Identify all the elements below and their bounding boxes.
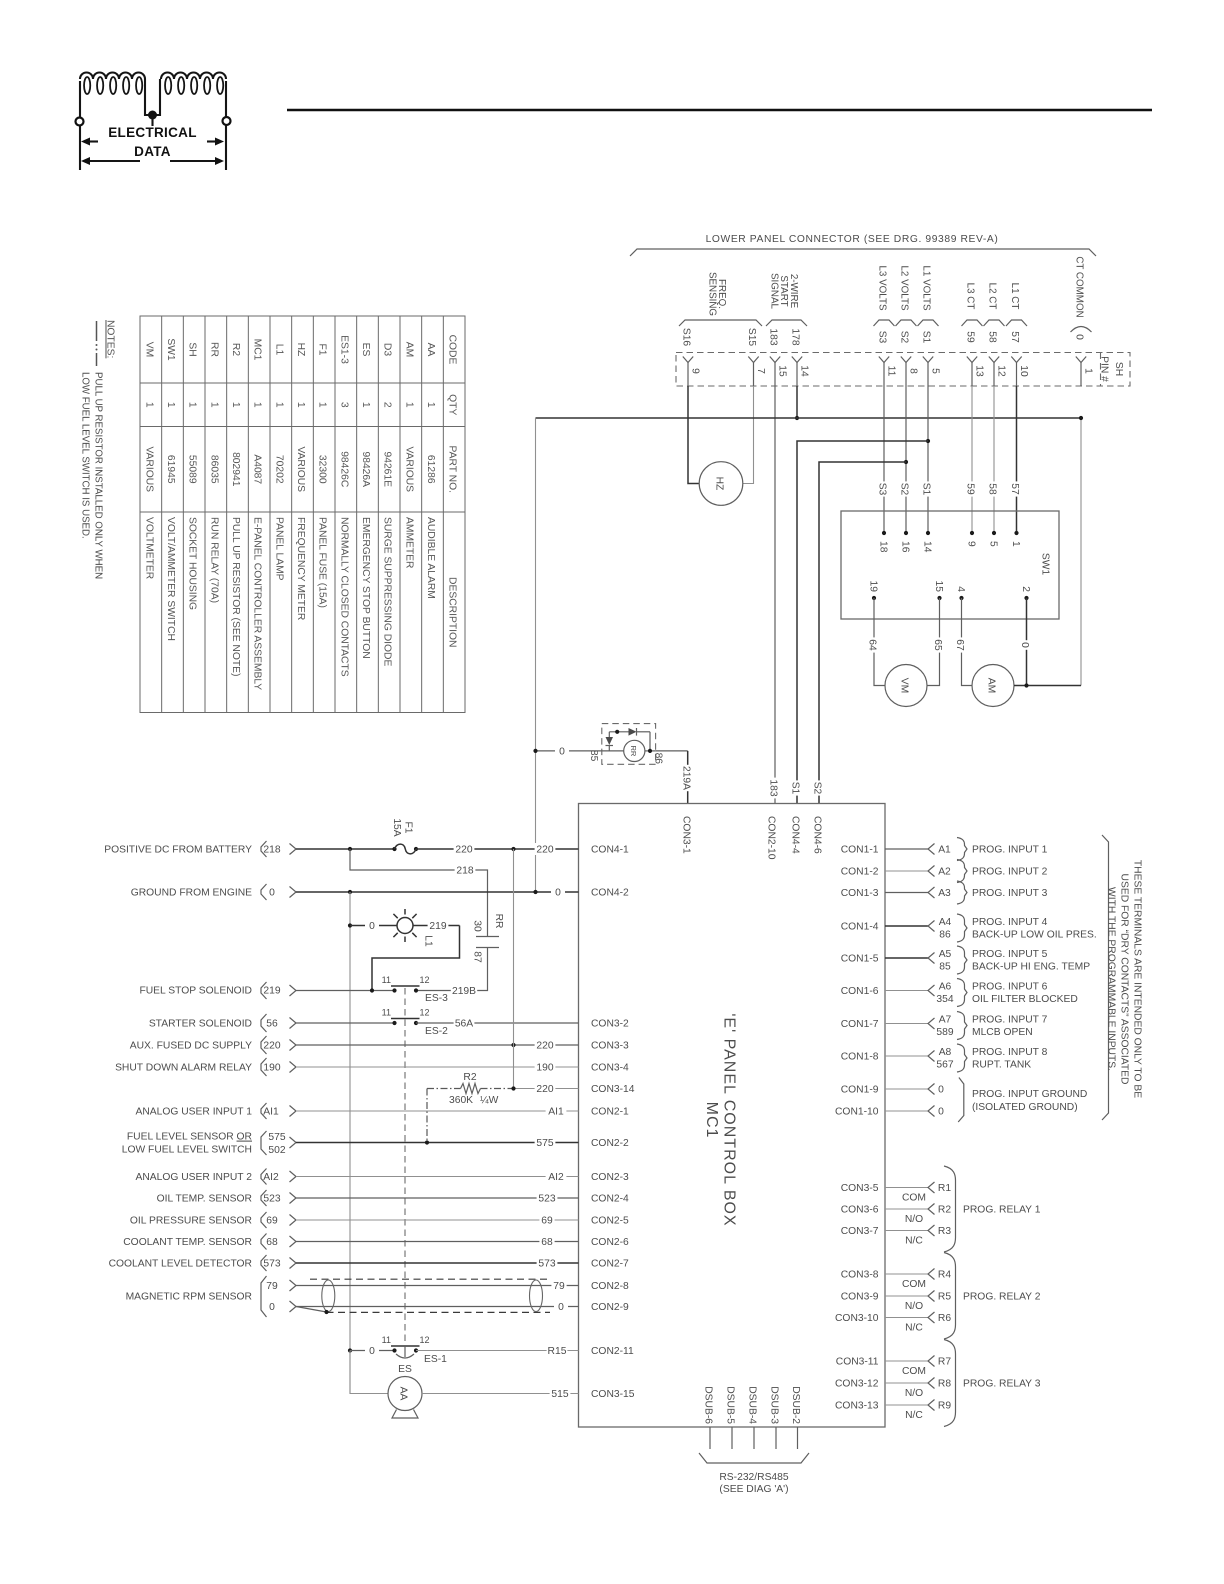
svg-text:L2 CT: L2 CT <box>987 283 998 310</box>
svg-text:A6: A6 <box>939 982 952 993</box>
svg-text:HZ: HZ <box>295 343 306 357</box>
voltmeter VM <box>885 665 927 707</box>
svg-text:CT COMMON: CT COMMON <box>1074 256 1085 317</box>
svg-text:1: 1 <box>1083 368 1094 374</box>
RR relay contact 30/87 <box>476 936 499 938</box>
svg-text:VM: VM <box>899 678 910 693</box>
svg-text:220: 220 <box>455 845 472 856</box>
svg-text:14: 14 <box>922 541 933 553</box>
svg-text:CON1-8: CON1-8 <box>841 1052 879 1063</box>
wire 219 lamp to fuel stop solenoid <box>413 925 460 927</box>
wire 56A to CON3-2 <box>416 1022 579 1024</box>
wire S15 to frequency meter <box>743 386 754 484</box>
diode D3 (horizontal, across RR coil) <box>629 728 637 736</box>
ground bus vertical <box>349 892 351 1394</box>
svg-text:R5: R5 <box>938 1292 951 1303</box>
svg-text:A4: A4 <box>939 917 952 928</box>
svg-text:PANEL LAMP: PANEL LAMP <box>273 517 284 581</box>
svg-text:11: 11 <box>886 366 897 377</box>
svg-text:DSUB-6: DSUB-6 <box>703 1386 714 1424</box>
svg-text:CON2-9: CON2-9 <box>591 1302 629 1313</box>
svg-text:PROG. RELAY 2: PROG. RELAY 2 <box>963 1292 1041 1303</box>
svg-text:CON2-5: CON2-5 <box>591 1216 629 1227</box>
svg-text:R9: R9 <box>938 1401 951 1412</box>
svg-text:CON1-1: CON1-1 <box>841 845 879 856</box>
pull-up resistor R2 360K quarter-watt (dash-dot optional wiring) <box>427 1072 514 1143</box>
svg-text:S1: S1 <box>921 331 932 344</box>
svg-text:CON3-15: CON3-15 <box>591 1389 635 1400</box>
svg-text:MC1: MC1 <box>703 1102 720 1139</box>
parts table (CODE/QTY/PART NO./DESCRIPTION, rotated) <box>140 316 465 713</box>
svg-text:3: 3 <box>338 402 349 408</box>
svg-text:11: 11 <box>382 1335 391 1345</box>
programmable relays CON3 wiring <box>885 1166 1041 1427</box>
svg-text:0: 0 <box>558 1302 564 1313</box>
connector dashed housing with pin forks and pin numbers <box>676 353 1130 387</box>
svg-text:CON3-6: CON3-6 <box>841 1205 879 1216</box>
svg-text:AI1: AI1 <box>548 1107 564 1118</box>
svg-text:573: 573 <box>538 1259 555 1270</box>
svg-text:802941: 802941 <box>230 452 241 487</box>
svg-text:183: 183 <box>768 328 779 345</box>
svg-text:PIN #: PIN # <box>1099 356 1110 382</box>
svg-text:59: 59 <box>965 483 976 495</box>
svg-text:57: 57 <box>1009 331 1020 343</box>
svg-text:ES: ES <box>398 1364 412 1375</box>
connector group labels (rotated) <box>706 256 1084 317</box>
ammeter AM <box>972 665 1014 707</box>
svg-text:ELECTRICAL: ELECTRICAL <box>108 125 197 140</box>
svg-text:360K: 360K <box>449 1095 473 1106</box>
svg-text:CON3-11: CON3-11 <box>836 1357 879 1368</box>
svg-text:A4087: A4087 <box>252 454 263 484</box>
wire ammeter to 0 bus <box>1014 685 1081 687</box>
svg-text:S2: S2 <box>899 483 910 496</box>
svg-text:CON1-4: CON1-4 <box>841 922 879 933</box>
svg-text:65: 65 <box>932 639 943 651</box>
svg-text:NOTES:: NOTES: <box>105 320 116 358</box>
connector overall bracket <box>630 249 1096 256</box>
svg-text:SHUT DOWN ALARM RELAY: SHUT DOWN ALARM RELAY <box>115 1063 252 1074</box>
svg-text:N/O: N/O <box>905 1388 923 1399</box>
svg-text:220: 220 <box>263 1041 280 1052</box>
svg-text:DSUB-3: DSUB-3 <box>769 1386 780 1424</box>
svg-text:SIGNAL: SIGNAL <box>769 273 780 309</box>
emergency stop contact ES-3 <box>392 988 396 992</box>
svg-text:CON3-10: CON3-10 <box>835 1313 879 1324</box>
svg-text:COOLANT TEMP. SENSOR: COOLANT TEMP. SENSOR <box>123 1237 252 1248</box>
svg-text:AM: AM <box>986 678 997 693</box>
svg-text:CON1-7: CON1-7 <box>841 1019 879 1030</box>
svg-text:589: 589 <box>936 1027 953 1038</box>
svg-text:30: 30 <box>472 920 483 932</box>
frequency meter HZ <box>699 462 743 506</box>
svg-text:15: 15 <box>933 581 944 593</box>
svg-text:COOLANT LEVEL DETECTOR: COOLANT LEVEL DETECTOR <box>109 1259 252 1270</box>
svg-text:CON2-1: CON2-1 <box>591 1107 629 1118</box>
svg-text:13: 13 <box>974 365 985 377</box>
svg-text:0: 0 <box>559 747 565 758</box>
svg-text:RR: RR <box>493 914 504 929</box>
svg-text:NORMALLY CLOSED CONTACTS: NORMALLY CLOSED CONTACTS <box>338 517 349 677</box>
wire 64 SW1 pin19 to voltmeter <box>874 598 885 686</box>
svg-text:S3: S3 <box>877 331 888 344</box>
node: 220 bus junction at aux supply <box>511 1043 515 1047</box>
svg-text:32300: 32300 <box>317 455 328 484</box>
svg-text:CON3-1: CON3-1 <box>681 816 692 854</box>
wire 515 AA to CON3-15 <box>422 1393 579 1395</box>
svg-text:87: 87 <box>472 951 483 963</box>
panel lamp L1 <box>348 923 352 927</box>
RR internal wiring <box>609 731 628 733</box>
svg-text:94261E: 94261E <box>382 451 393 487</box>
notes (rotated) <box>80 320 116 579</box>
svg-text:VOLT/AMMETER SWITCH: VOLT/AMMETER SWITCH <box>165 517 176 641</box>
volt/ammeter switch SW1 <box>841 511 1059 619</box>
wire 183 to CON2-10 <box>774 386 776 804</box>
svg-text:CON3-2: CON3-2 <box>591 1019 629 1030</box>
node: SW1 pin2 0 junction <box>1024 683 1028 687</box>
svg-text:PROG. INPUT 2: PROG. INPUT 2 <box>972 867 1048 878</box>
svg-text:218: 218 <box>263 845 280 856</box>
svg-text:CON4-4: CON4-4 <box>790 816 801 854</box>
svg-text:575: 575 <box>536 1138 553 1149</box>
svg-text:219: 219 <box>429 921 446 932</box>
svg-text:9: 9 <box>690 368 701 374</box>
svg-text:0: 0 <box>269 1302 275 1313</box>
svg-text:57: 57 <box>1009 483 1020 495</box>
svg-text:OIL PRESSURE SENSOR: OIL PRESSURE SENSOR <box>130 1216 252 1227</box>
svg-text:POSITIVE DC FROM BATTERY: POSITIVE DC FROM BATTERY <box>104 845 252 856</box>
svg-text:L1: L1 <box>273 344 284 356</box>
svg-text:RUN RELAY (70A): RUN RELAY (70A) <box>208 517 219 603</box>
svg-text:1: 1 <box>252 402 263 408</box>
svg-text:'E' PANEL CONTROL BOX: 'E' PANEL CONTROL BOX <box>721 1013 738 1226</box>
svg-text:CON3-9: CON3-9 <box>841 1292 879 1303</box>
svg-text:69: 69 <box>541 1216 553 1227</box>
source: magnetic RPM sensor, wires 79 and 0 <box>126 1276 296 1317</box>
svg-text:QTY: QTY <box>447 394 458 415</box>
svg-text:5: 5 <box>930 368 941 374</box>
connector group overbraces <box>679 320 1092 332</box>
wire 0 to RR 85 <box>536 750 602 752</box>
svg-text:69: 69 <box>266 1216 278 1227</box>
svg-text:L3 CT: L3 CT <box>965 283 976 310</box>
wire 79 to CON2-8 <box>296 1285 579 1287</box>
svg-text:CON1-2: CON1-2 <box>841 867 879 878</box>
diode D3 (vertical, on RR coil input) <box>606 737 614 745</box>
220 bus vertical <box>513 849 515 1089</box>
svg-text:CON2-11: CON2-11 <box>591 1346 634 1357</box>
svg-text:CON3-7: CON3-7 <box>841 1226 879 1237</box>
svg-text:RR: RR <box>629 745 638 756</box>
svg-text:15: 15 <box>777 365 788 377</box>
svg-text:ES-3: ES-3 <box>425 993 448 1004</box>
svg-text:FUEL LEVEL SENSOR OR: FUEL LEVEL SENSOR OR <box>127 1132 252 1143</box>
svg-text:A7: A7 <box>939 1015 952 1026</box>
svg-text:1: 1 <box>425 402 436 408</box>
svg-text:11: 11 <box>382 975 391 985</box>
svg-text:1: 1 <box>317 402 328 408</box>
svg-text:523: 523 <box>263 1194 280 1205</box>
svg-text:CON4-2: CON4-2 <box>591 888 629 899</box>
svg-text:S16: S16 <box>681 328 692 347</box>
svg-text:CON3-13: CON3-13 <box>835 1401 879 1412</box>
svg-text:15A: 15A <box>391 818 402 836</box>
svg-text:CON3-12: CON3-12 <box>835 1379 879 1390</box>
svg-text:R8: R8 <box>938 1379 951 1390</box>
svg-text:58: 58 <box>987 483 998 495</box>
svg-text:MLCB OPEN: MLCB OPEN <box>972 1027 1033 1038</box>
svg-text:EMERGENCY STOP BUTTON: EMERGENCY STOP BUTTON <box>360 517 371 659</box>
svg-text:GROUND FROM ENGINE: GROUND FROM ENGINE <box>131 888 252 899</box>
svg-text:R2: R2 <box>230 343 241 356</box>
svg-text:190: 190 <box>263 1063 280 1074</box>
wire 178 to 0 rail <box>796 386 798 418</box>
svg-text:CON3-3: CON3-3 <box>591 1041 629 1052</box>
svg-text:86: 86 <box>939 930 951 941</box>
svg-text:573: 573 <box>263 1259 280 1270</box>
svg-text:58: 58 <box>987 331 998 343</box>
svg-text:SOCKET HOUSING: SOCKET HOUSING <box>187 517 198 610</box>
svg-text:67: 67 <box>954 639 965 651</box>
svg-text:PROG. INPUT 8: PROG. INPUT 8 <box>972 1047 1048 1058</box>
svg-text:PULL UP RESISTOR (SEE NOTE): PULL UP RESISTOR (SEE NOTE) <box>230 517 241 676</box>
svg-text:CON2-7: CON2-7 <box>591 1259 629 1270</box>
svg-text:HZ: HZ <box>714 477 725 491</box>
svg-text:56A: 56A <box>455 1019 473 1030</box>
svg-text:AM: AM <box>403 342 414 357</box>
svg-text:DESCRIPTION: DESCRIPTION <box>447 577 458 647</box>
svg-text:MC1: MC1 <box>252 339 263 361</box>
wire S16 to frequency meter <box>688 386 699 484</box>
svg-text:R7: R7 <box>938 1357 951 1368</box>
svg-text:PROG. INPUT 4: PROG. INPUT 4 <box>972 917 1048 928</box>
svg-text:1: 1 <box>1010 541 1021 547</box>
svg-text:(ISOLATED GROUND): (ISOLATED GROUND) <box>972 1102 1078 1113</box>
svg-text:AA: AA <box>398 1387 409 1401</box>
svg-text:1: 1 <box>230 402 241 408</box>
wire CT common 0 down to ammeter <box>1080 418 1082 686</box>
ground rail 0 (horizontal) <box>536 417 1082 419</box>
logo: ELECTRICAL DATA section symbol (two inductor coils) <box>76 73 231 171</box>
svg-text:PROG. INPUT 7: PROG. INPUT 7 <box>972 1015 1048 1026</box>
svg-text:CON2-3: CON2-3 <box>591 1172 629 1183</box>
svg-text:79: 79 <box>553 1281 565 1292</box>
wire 67 SW1 pin4 to ammeter <box>962 598 973 686</box>
E-panel controller MC1 box <box>579 804 886 1428</box>
svg-text:61945: 61945 <box>165 455 176 484</box>
svg-text:L2 VOLTS: L2 VOLTS <box>899 265 910 310</box>
svg-text:CON4-1: CON4-1 <box>591 845 629 856</box>
svg-text:R15: R15 <box>548 1346 567 1357</box>
svg-text:523: 523 <box>538 1194 555 1205</box>
wire 0 to CON2-9 <box>296 1306 579 1308</box>
svg-text:DSUB-2: DSUB-2 <box>790 1386 801 1424</box>
svg-text:R2: R2 <box>938 1205 951 1216</box>
svg-text:PROG. RELAY 3: PROG. RELAY 3 <box>963 1379 1041 1390</box>
svg-text:1: 1 <box>403 402 414 408</box>
svg-text:1: 1 <box>143 402 154 408</box>
svg-text:354: 354 <box>936 994 953 1005</box>
svg-text:7: 7 <box>755 368 766 374</box>
svg-text:ANALOG USER INPUT 1: ANALOG USER INPUT 1 <box>135 1107 252 1118</box>
svg-text:A1: A1 <box>938 845 951 856</box>
wire 0 rail drop to ground row <box>535 418 537 892</box>
svg-text:8: 8 <box>908 368 919 374</box>
wire 57 to SW1 pin 1 <box>1016 386 1018 533</box>
programmable inputs CON1 wiring <box>885 838 1097 1123</box>
svg-text:SW1: SW1 <box>165 338 176 361</box>
MC1 bottom DSUB pins and wires <box>703 1386 802 1449</box>
svg-text:220: 220 <box>536 845 553 856</box>
wire 220 fuse to CON4-1 <box>416 848 579 850</box>
svg-text:ES1-3: ES1-3 <box>338 335 349 364</box>
svg-text:VARIOUS: VARIOUS <box>295 446 306 492</box>
svg-text:AI2: AI2 <box>263 1172 279 1183</box>
svg-text:CON1-3: CON1-3 <box>841 888 879 899</box>
svg-text:L1 VOLTS: L1 VOLTS <box>921 265 932 310</box>
svg-text:VARIOUS: VARIOUS <box>403 446 414 492</box>
svg-text:CON3-4: CON3-4 <box>591 1063 629 1074</box>
svg-text:0: 0 <box>555 888 561 899</box>
svg-text:18: 18 <box>878 541 889 553</box>
svg-text:L1 CT: L1 CT <box>1009 283 1020 310</box>
svg-text:70202: 70202 <box>273 455 284 484</box>
node: ground junctions <box>348 890 352 894</box>
svg-text:PROG. RELAY 1: PROG. RELAY 1 <box>963 1205 1041 1216</box>
svg-text:68: 68 <box>541 1237 553 1248</box>
svg-text:CON2-8: CON2-8 <box>591 1281 629 1292</box>
svg-text:FUEL STOP SOLENOID: FUEL STOP SOLENOID <box>139 986 252 997</box>
svg-text:515: 515 <box>551 1389 568 1400</box>
wire S1 to SW1 pin 14 with branch to CON4-4 <box>927 386 929 533</box>
svg-text:(SEE DIAG 'A'): (SEE DIAG 'A') <box>719 1484 788 1495</box>
svg-text:VM: VM <box>143 342 154 357</box>
svg-text:CON1-9: CON1-9 <box>841 1085 879 1096</box>
svg-text:59: 59 <box>965 331 976 343</box>
svg-text:178: 178 <box>790 328 801 345</box>
svg-text:PANEL FUSE (15A): PANEL FUSE (15A) <box>317 517 328 608</box>
svg-text:E-PANEL CONTROLLER ASSEMBLY: E-PANEL CONTROLLER ASSEMBLY <box>252 517 263 690</box>
svg-text:56: 56 <box>266 1019 278 1030</box>
svg-text:PROG. INPUT 5: PROG. INPUT 5 <box>972 949 1048 960</box>
svg-text:219B: 219B <box>452 986 476 997</box>
svg-text:CON1-5: CON1-5 <box>841 954 879 965</box>
svg-text:12: 12 <box>420 975 430 985</box>
svg-text:AUX. FUSED DC SUPPLY: AUX. FUSED DC SUPPLY <box>130 1041 252 1052</box>
svg-text:1: 1 <box>187 402 198 408</box>
svg-text:MAGNETIC RPM SENSOR: MAGNETIC RPM SENSOR <box>126 1292 252 1303</box>
connector wire numbers (rotated) <box>681 328 1085 347</box>
svg-text:1: 1 <box>165 402 176 408</box>
svg-text:ANALOG USER INPUT 2: ANALOG USER INPUT 2 <box>135 1172 252 1183</box>
svg-text:PROG. INPUT GROUND: PROG. INPUT GROUND <box>972 1089 1087 1100</box>
node: 178 junction on 0 rail <box>795 416 799 420</box>
svg-text:5: 5 <box>988 541 999 547</box>
svg-text:219: 219 <box>263 986 280 997</box>
svg-text:575: 575 <box>268 1132 285 1143</box>
wire R15 ES-1 to CON2-11 <box>416 1350 579 1352</box>
svg-text:86: 86 <box>653 753 664 765</box>
svg-text:BACK-UP HI ENG. TEMP: BACK-UP HI ENG. TEMP <box>972 962 1090 973</box>
svg-text:68: 68 <box>266 1237 278 1248</box>
svg-text:98426C: 98426C <box>338 451 349 488</box>
svg-text:RUPT. TANK: RUPT. TANK <box>972 1060 1031 1071</box>
svg-text:0: 0 <box>1019 642 1030 648</box>
run relay RR assembly (dashed enclosure) <box>588 724 663 765</box>
svg-text:L3 VOLTS: L3 VOLTS <box>877 265 888 310</box>
svg-text:220: 220 <box>536 1041 553 1052</box>
wire 219B RR 87 to ES-3 <box>416 948 488 991</box>
svg-text:OIL TEMP. SENSOR: OIL TEMP. SENSOR <box>157 1194 252 1205</box>
svg-text:PART NO.: PART NO. <box>447 446 458 494</box>
svg-text:85: 85 <box>939 962 951 973</box>
svg-text:LOW FUEL LEVEL SWITCH: LOW FUEL LEVEL SWITCH <box>122 1145 252 1156</box>
svg-text:VOLTMETER: VOLTMETER <box>143 517 154 579</box>
wire 86/219A RR to CON3-1 <box>656 750 688 752</box>
svg-text:COM: COM <box>902 1279 926 1290</box>
svg-text:0: 0 <box>269 888 275 899</box>
svg-text:OIL FILTER BLOCKED: OIL FILTER BLOCKED <box>972 994 1078 1005</box>
wire S3 to SW1 pin 18 <box>883 386 885 533</box>
svg-text:DSUB-4: DSUB-4 <box>747 1386 758 1424</box>
svg-text:LOW FUEL LEVEL SWITCH IS USED.: LOW FUEL LEVEL SWITCH IS USED. <box>80 372 91 539</box>
wire 220 R2 to CON3-14 <box>514 1088 579 1090</box>
svg-text:¼W: ¼W <box>480 1094 499 1106</box>
svg-text:AMMETER: AMMETER <box>403 517 414 569</box>
svg-text:64: 64 <box>867 639 878 651</box>
wire 218 branch to RR contact <box>350 849 488 937</box>
svg-text:219A: 219A <box>681 766 692 790</box>
svg-text:79: 79 <box>266 1281 278 1292</box>
svg-text:AUDIBLE ALARM: AUDIBLE ALARM <box>425 517 436 599</box>
wire 65 SW1 pin15 to voltmeter <box>927 598 940 686</box>
svg-text:220: 220 <box>536 1084 553 1095</box>
shielded cable around RPM sensor wires <box>296 1279 550 1314</box>
svg-text:CON3-8: CON3-8 <box>841 1270 879 1281</box>
svg-text:N/C: N/C <box>905 1323 923 1334</box>
node: battery junction <box>348 847 352 851</box>
svg-text:CON2-4: CON2-4 <box>591 1194 629 1205</box>
RR coil <box>624 740 645 761</box>
svg-text:85: 85 <box>588 750 599 762</box>
svg-text:CON2-2: CON2-2 <box>591 1138 629 1149</box>
svg-text:14: 14 <box>799 365 810 377</box>
svg-text:AI2: AI2 <box>548 1172 564 1183</box>
svg-text:S3: S3 <box>877 483 888 496</box>
svg-text:CODE: CODE <box>447 335 458 365</box>
svg-text:COM: COM <box>902 1366 926 1377</box>
svg-text:CON1-6: CON1-6 <box>841 986 879 997</box>
svg-text:N/C: N/C <box>905 1410 923 1421</box>
svg-text:DSUB-5: DSUB-5 <box>725 1386 736 1424</box>
MC1 top pin labels (rotated) <box>681 778 825 860</box>
RS-232/RS485 underbrace and label <box>699 1453 809 1463</box>
dry contacts note (rotated) <box>1106 860 1143 1098</box>
svg-text:SURGE SUPPRESSING DIODE: SURGE SUPPRESSING DIODE <box>382 517 393 666</box>
source: fuel level sensor or low fuel level switch, wires 575/502 <box>122 1131 296 1156</box>
svg-text:61286: 61286 <box>425 455 436 484</box>
svg-text:16: 16 <box>900 541 911 553</box>
svg-text:A3: A3 <box>938 888 951 899</box>
svg-text:9: 9 <box>966 541 977 547</box>
svg-text:A2: A2 <box>938 867 951 878</box>
svg-text:1: 1 <box>360 402 371 408</box>
svg-text:PROG. INPUT 1: PROG. INPUT 1 <box>972 845 1048 856</box>
svg-text:N/C: N/C <box>905 1236 923 1247</box>
svg-text:S1: S1 <box>921 483 932 496</box>
